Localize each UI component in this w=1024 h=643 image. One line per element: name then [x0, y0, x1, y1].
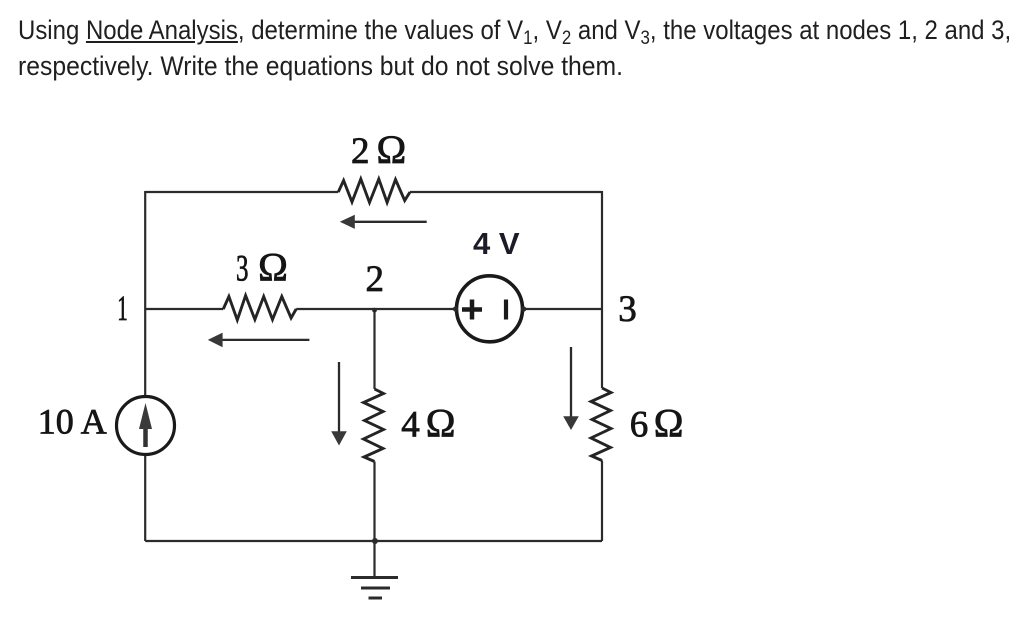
svg-text:Ω: Ω — [258, 245, 288, 290]
svg-text:3: 3 — [618, 289, 637, 330]
svg-text:4: 4 — [401, 405, 420, 446]
svg-text:1: 1 — [117, 288, 128, 328]
svg-text:4 V: 4 V — [473, 226, 520, 261]
svg-text:Ω: Ω — [377, 127, 407, 172]
svg-text:Ω: Ω — [654, 401, 684, 446]
svg-text:3: 3 — [236, 249, 249, 290]
svg-text:2: 2 — [366, 259, 385, 300]
svg-text:Ω: Ω — [426, 401, 456, 446]
svg-text:2: 2 — [351, 131, 370, 172]
svg-text:10 A: 10 A — [38, 402, 107, 442]
svg-text:6: 6 — [630, 405, 649, 446]
